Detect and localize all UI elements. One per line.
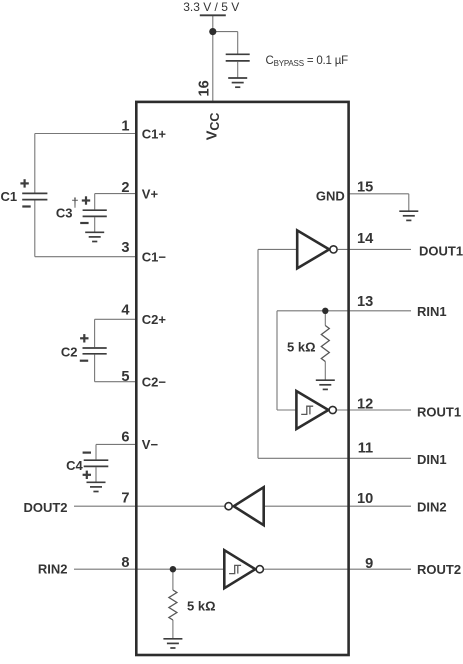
svg-text:2: 2 [121, 180, 129, 196]
svg-text:11: 11 [358, 440, 373, 456]
svg-text:V+: V+ [142, 186, 159, 201]
svg-text:C2: C2 [61, 344, 78, 359]
svg-text:DOUT1: DOUT1 [419, 244, 463, 259]
svg-text:6: 6 [121, 429, 129, 445]
svg-text:†: † [71, 195, 78, 210]
svg-text:16: 16 [197, 80, 213, 96]
svg-text:3: 3 [121, 240, 129, 256]
svg-text:14: 14 [357, 231, 374, 247]
svg-text:8: 8 [121, 555, 129, 571]
svg-text:C2−: C2− [142, 375, 167, 390]
svg-text:GND: GND [316, 188, 345, 203]
svg-text:ROUT1: ROUT1 [417, 405, 461, 420]
svg-text:C3: C3 [56, 205, 73, 220]
svg-text:VCC: VCC [205, 113, 223, 141]
svg-text:RIN2: RIN2 [38, 561, 68, 576]
svg-text:12: 12 [357, 397, 373, 413]
svg-text:10: 10 [357, 491, 373, 507]
svg-text:DOUT2: DOUT2 [23, 500, 67, 515]
svg-text:DIN1: DIN1 [417, 452, 447, 467]
svg-text:RIN1: RIN1 [417, 304, 447, 319]
svg-text:ROUT2: ROUT2 [417, 562, 461, 577]
svg-text:C1+: C1+ [142, 126, 167, 141]
svg-text:C1: C1 [1, 189, 18, 204]
svg-text:3.3 V / 5 V: 3.3 V / 5 V [183, 0, 239, 14]
svg-text:DIN2: DIN2 [417, 500, 447, 515]
svg-text:V−: V− [142, 437, 159, 452]
svg-text:13: 13 [357, 294, 373, 310]
svg-text:5 kΩ: 5 kΩ [187, 599, 216, 614]
svg-text:7: 7 [121, 491, 129, 507]
svg-text:9: 9 [365, 556, 373, 572]
svg-text:CBYPASS = 0.1 µF: CBYPASS = 0.1 µF [266, 55, 349, 68]
svg-text:5: 5 [121, 369, 129, 385]
svg-text:4: 4 [121, 302, 130, 318]
svg-text:5 kΩ: 5 kΩ [287, 340, 316, 355]
svg-text:1: 1 [121, 118, 129, 134]
svg-text:C1−: C1− [142, 250, 167, 265]
svg-text:C4: C4 [66, 458, 83, 473]
svg-text:15: 15 [357, 180, 373, 196]
svg-text:C2+: C2+ [142, 312, 167, 327]
